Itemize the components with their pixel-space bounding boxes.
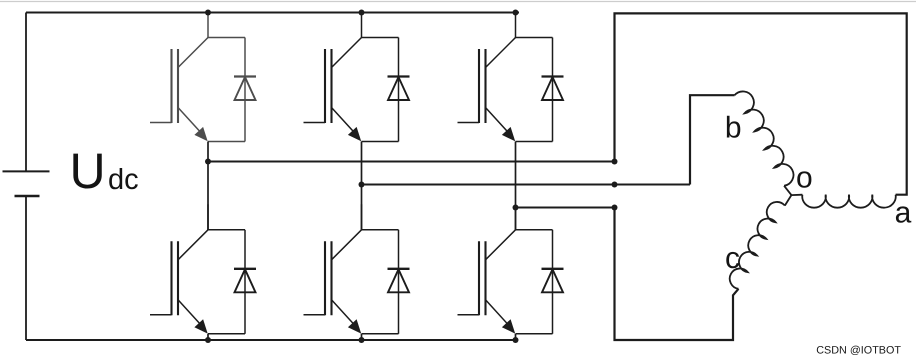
svg-text:b: b: [725, 112, 742, 145]
svg-text:o: o: [796, 162, 813, 195]
junction dot on phase B line: [612, 182, 618, 188]
svg-text:a: a: [895, 197, 912, 230]
diode D4 (anti-parallel with Q4): [388, 230, 410, 334]
transistor Q5 (upper IGBT, phase C): [458, 12, 553, 142]
battery Udc positive plate (long): [3, 170, 50, 172]
wire: phase C lower emitter to negative bus: [515, 334, 517, 340]
transistor Q3 (upper IGBT, phase B): [304, 12, 399, 142]
node B: phase B midpoint tap: [359, 182, 365, 188]
wire: left rail from battery - plate down to bottom bus: [25, 196, 27, 340]
junction: phase C line to drop: [612, 205, 618, 211]
winding Lb (phase b): [735, 91, 794, 185]
junction: phase A line to riser: [612, 159, 618, 165]
wire: phase A leg midpoint vertical: [207, 142, 209, 230]
junction: phase A leg on - bus: [205, 337, 211, 343]
node A: phase A midpoint tap: [205, 159, 211, 165]
wire: phase A riser and top route to winding a: [615, 13, 907, 194]
diode D3 (anti-parallel with Q3): [388, 38, 410, 142]
svg-text:U: U: [70, 143, 106, 199]
junction: phase C leg on - bus: [513, 337, 519, 343]
decorative top border (screenshot edge): [0, 1, 916, 3]
wire: phase C drop and bottom route to winding c: [615, 208, 739, 341]
wire: phase B riser to winding b: [690, 95, 735, 184]
wire: left rail from top bus down to battery + plate: [25, 13, 27, 172]
battery Udc negative plate (short): [15, 195, 40, 198]
transistor Q2 (lower IGBT, phase A): [150, 204, 245, 333]
transistor Q4 (lower IGBT, phase B): [304, 204, 399, 333]
wire: phase C output line: [516, 207, 615, 209]
diode D6 (anti-parallel with Q6): [542, 230, 564, 334]
wire: phase B lower emitter to negative bus: [361, 334, 363, 340]
svg-text:CSDN @IOTBOT: CSDN @IOTBOT: [816, 345, 901, 357]
svg-text:dc: dc: [108, 164, 139, 196]
wire: positive DC bus (top rail): [26, 12, 519, 14]
wire: phase C leg midpoint vertical: [515, 142, 517, 230]
node C: phase C midpoint tap: [513, 205, 519, 211]
diode D2 (anti-parallel with Q2): [234, 230, 256, 334]
diode D5 (anti-parallel with Q5): [542, 38, 564, 142]
diode D1 (anti-parallel with Q1): [234, 38, 256, 142]
wire: phase A output line: [208, 161, 615, 163]
transistor Q6 (lower IGBT, phase C): [458, 204, 553, 333]
wire: negative DC bus (bottom rail): [26, 339, 517, 341]
wire: stub from node o to winding a: [791, 194, 802, 196]
wire: phase A lower emitter to negative bus: [207, 334, 209, 340]
wire: phase B output line: [362, 184, 691, 186]
winding La (phase a): [802, 195, 895, 208]
transistor Q1 (upper IGBT, phase A): [150, 12, 245, 142]
junction: phase A leg on + bus: [205, 10, 211, 16]
junction: phase B leg on + bus: [359, 10, 365, 16]
wire: phase B leg midpoint vertical: [361, 142, 363, 230]
winding Lc (phase c): [730, 202, 785, 289]
wire: stub from node o to winding c: [785, 195, 792, 206]
junction: phase B leg on - bus: [359, 337, 365, 343]
junction: phase C leg on + bus: [513, 10, 519, 16]
svg-text:c: c: [725, 242, 740, 275]
wire: stub from winding b to node o: [784, 186, 791, 195]
